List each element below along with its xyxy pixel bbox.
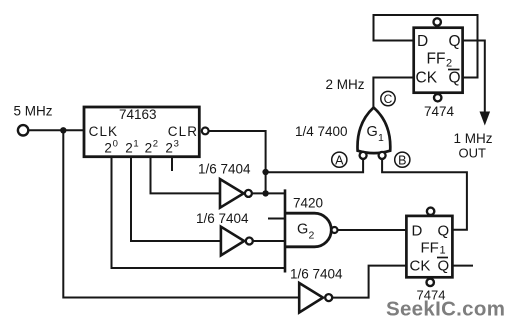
wire 5MHz down to inverter3 input	[63, 130, 299, 297]
wire FF2 Qbar feedback to D	[374, 15, 478, 78]
svg-text:FF: FF	[421, 240, 439, 257]
svg-text:74163: 74163	[119, 107, 157, 122]
wire CLR right and down	[209, 131, 266, 193]
svg-text:CLK: CLK	[89, 124, 119, 139]
svg-text:1: 1	[378, 132, 384, 144]
inverter U4 1/6 7404	[290, 267, 343, 313]
CLR output bubble	[202, 127, 209, 134]
svg-text:Q: Q	[449, 33, 461, 50]
svg-text:A: A	[335, 153, 344, 167]
svg-text:7420: 7420	[293, 196, 323, 211]
svg-text:B: B	[398, 153, 406, 167]
node A	[332, 152, 347, 167]
svg-text:2: 2	[125, 141, 133, 156]
svg-text:2: 2	[104, 141, 112, 156]
inverter U3 1/6 7404	[196, 211, 253, 255]
svg-text:CLR: CLR	[168, 124, 198, 139]
svg-text:C: C	[384, 92, 393, 106]
wire 2^0 output to G2	[112, 156, 286, 268]
wire to A input of G1	[266, 160, 364, 173]
wire FF2 Q to output arrow	[463, 41, 485, 113]
counter 74163 U1	[84, 107, 199, 157]
wire FF1 Q to B input of G1	[382, 160, 467, 230]
wire inverter3 output to FF1 CK	[332, 266, 406, 298]
flip-flop FF2 7474	[414, 18, 463, 119]
svg-text:2: 2	[145, 141, 153, 156]
svg-text:2: 2	[309, 230, 315, 242]
nand-gate G2 7420	[285, 189, 338, 272]
svg-text:Q: Q	[438, 223, 450, 240]
svg-text:1: 1	[133, 138, 138, 149]
nand-gate G1 1/4 7400	[295, 108, 390, 159]
node C	[381, 91, 395, 106]
svg-text:D: D	[417, 33, 428, 50]
wire G1 output to FF2 CK (2 MHz node)	[373, 78, 413, 109]
svg-text:1/6 7404: 1/6 7404	[290, 267, 343, 282]
svg-text:1/6 7404: 1/6 7404	[198, 162, 251, 177]
inverter U2 1/6 7404	[198, 162, 252, 208]
wire FF1 Qbar stub	[452, 265, 473, 267]
svg-text:3: 3	[174, 138, 179, 149]
node input junction	[60, 127, 66, 133]
svg-text:2 MHz: 2 MHz	[326, 77, 365, 92]
svg-text:OUT: OUT	[459, 146, 487, 161]
wire 2^3 stub	[171, 156, 173, 171]
wire 2^2 output to inverter1	[151, 156, 221, 193]
svg-text:1 MHz: 1 MHz	[454, 131, 493, 146]
svg-text:D: D	[412, 223, 423, 240]
svg-text:Q: Q	[449, 70, 461, 87]
wire inverter1 output to G2	[252, 192, 285, 194]
svg-text:5 MHz: 5 MHz	[14, 104, 53, 119]
svg-text:1/6 7404: 1/6 7404	[196, 211, 249, 226]
svg-text:FF: FF	[427, 51, 446, 68]
svg-text:G: G	[367, 124, 378, 140]
node inverter1 output junction	[262, 190, 268, 196]
input terminal 5 MHz	[14, 104, 53, 136]
wire input to CLK	[29, 129, 84, 131]
arrow 1 MHz OUT	[454, 112, 493, 161]
svg-text:1: 1	[440, 245, 446, 257]
node CLR/A junction	[262, 169, 268, 175]
wire G2 output to FF1 D	[338, 229, 407, 231]
wire G2 input stub	[268, 218, 285, 220]
svg-text:0: 0	[113, 138, 118, 149]
svg-text:CK: CK	[410, 258, 431, 275]
node B	[395, 152, 410, 167]
svg-text:1/4 7400: 1/4 7400	[295, 124, 348, 139]
flip-flop FF1 7474	[406, 208, 452, 303]
svg-text:7474: 7474	[424, 104, 455, 119]
svg-text:Q: Q	[438, 258, 450, 275]
svg-text:2: 2	[446, 58, 452, 70]
wire 2^1 output to inverter2	[131, 156, 221, 241]
svg-text:2: 2	[153, 138, 158, 149]
svg-text:SeekIC.com: SeekIC.com	[386, 298, 505, 321]
svg-text:G: G	[297, 222, 308, 238]
svg-text:CK: CK	[416, 70, 438, 87]
wire inverter2 output to G2	[253, 240, 285, 242]
svg-text:2: 2	[165, 141, 173, 156]
